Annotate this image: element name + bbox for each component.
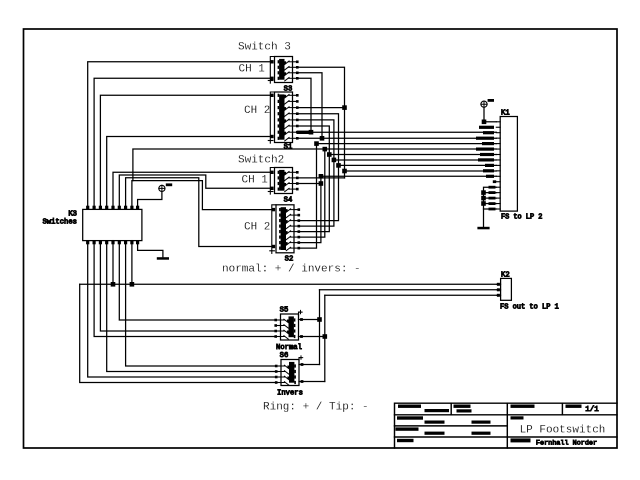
switch S3 (Switch 3 CH 1) bbox=[268, 57, 298, 94]
svg-text:K1: K1 bbox=[501, 110, 510, 118]
svg-text:Switch 3: Switch 3 bbox=[238, 42, 291, 54]
wire K3 pin11 to S5 pole 4 bbox=[94, 241, 276, 337]
wire net S4.3/S2.7 column x320.9 to K1 pin11 bbox=[299, 176, 321, 242]
wire K3 pin15 to S5 pole 1 bbox=[119, 241, 275, 320]
svg-text:Switch2: Switch2 bbox=[238, 155, 284, 167]
svg-text:normal: + / invers: -: normal: + / invers: - bbox=[222, 264, 361, 276]
wire K3 common loop to K1 pin6 bbox=[133, 149, 496, 181]
switch S6 Invers bbox=[275, 352, 303, 398]
switch S5 Normal bbox=[274, 307, 302, 353]
wire K3 pin5 to S4 CH1 pole 1 bbox=[113, 172, 272, 209]
connector K1 FS to LP 2 bbox=[496, 110, 542, 222]
switch S4 (Switch2 CH 1) bbox=[268, 168, 298, 205]
svg-text:Fernhall Norder: Fernhall Norder bbox=[536, 440, 597, 448]
wire K3 pin13 to S6 pole 2 bbox=[107, 241, 277, 372]
wire K3 pin16 to S6 pole 1 bbox=[126, 241, 277, 366]
wire K3 pin1 to S3 CH1 pole 1 bbox=[88, 62, 272, 210]
wire S2.6 up column x324.8 to K3 common line bbox=[299, 149, 325, 237]
svg-text:CH 2: CH 2 bbox=[244, 222, 270, 234]
svg-text:CH 1: CH 1 bbox=[239, 64, 266, 76]
wire output bus to K2 pin1 bbox=[80, 283, 497, 285]
wire net S1.5/S2.4 column x333.9 to K1 pin8 bbox=[297, 120, 334, 226]
wire S2.8 up column x316.5 to K1 pin5 bbox=[299, 144, 317, 249]
title block bbox=[395, 403, 618, 448]
svg-text:LP Footswitch: LP Footswitch bbox=[520, 425, 606, 437]
wire net S5 out2 / S6 out2 to K2 pin3 bbox=[299, 336, 325, 338]
ground symbol below K3 bbox=[157, 257, 169, 260]
wire K3 pin12 to S5 pole 3 bbox=[100, 241, 275, 331]
K1 net name bars bbox=[479, 126, 494, 129]
earth symbol near K3 bbox=[159, 183, 172, 191]
wire S3 throw 4 down column x311 joining S1.7 line to K1 pin3 bbox=[297, 78, 311, 132]
connector K2 FS out to LP 1 bbox=[497, 272, 559, 312]
svg-text:S5: S5 bbox=[280, 307, 289, 315]
svg-text:S1: S1 bbox=[284, 144, 293, 152]
svg-text:S4: S4 bbox=[284, 197, 293, 205]
svg-text:K2: K2 bbox=[501, 272, 510, 280]
earth symbol near K1 bbox=[481, 99, 494, 107]
wire net S1.4/S2.3 column x338.5 to K1 pin9 bbox=[297, 114, 338, 221]
svg-text:Ring: + / Tip: -: Ring: + / Tip: - bbox=[263, 402, 369, 414]
svg-text:CH 1: CH 1 bbox=[242, 175, 269, 187]
wire net S3.2/S1.3/S4.2 common, column x344.5, to K1 pin10 bbox=[297, 67, 344, 178]
wire K3 pin8 to S2 CH2 pole 1 bbox=[132, 181, 274, 210]
svg-text:CH 2: CH 2 bbox=[244, 105, 270, 117]
svg-text:S2: S2 bbox=[285, 256, 294, 264]
wire earth to K1 pin1 bbox=[483, 107, 485, 121]
wire S3 throw 3 down column x322 joining S1.8 line to K1 pin4 bbox=[297, 73, 322, 139]
svg-text:FS to LP 2: FS to LP 2 bbox=[501, 214, 542, 222]
svg-text:Invers: Invers bbox=[277, 390, 303, 398]
wire K3 pin18 to ground bbox=[138, 241, 163, 257]
title block redacted text bars bbox=[398, 405, 421, 408]
wire K3 pin14 to output bus bbox=[112, 241, 114, 285]
switch S1 (Switch 3 CH 2) bbox=[268, 92, 298, 152]
switch S2 (Switch2 CH 2) bbox=[270, 205, 300, 264]
wire K1 pins 14-18 to ground bbox=[484, 187, 497, 227]
svg-text:Normal: Normal bbox=[276, 344, 302, 352]
wire net S1.6/S2.5 column x329.3 to K1 pin7 bbox=[297, 126, 329, 232]
svg-text:S6: S6 bbox=[280, 352, 289, 360]
ground symbol below K1 bbox=[477, 227, 489, 230]
wire K3 pin10 to S6 pole 3 bbox=[88, 241, 277, 377]
svg-text:FS out to LP 1: FS out to LP 1 bbox=[500, 304, 559, 312]
wire K3 pin4 to S1 CH2 pole 2 bbox=[107, 137, 272, 210]
svg-text:Switches: Switches bbox=[42, 219, 77, 227]
wire K3 pin9 to earth symbol bbox=[138, 192, 162, 210]
wire K3 pin7 to S2 CH2 pole 2 bbox=[126, 178, 274, 247]
svg-text:K3: K3 bbox=[68, 211, 77, 219]
wire bus left leg to S6 pole 4 bbox=[80, 284, 277, 382]
wire K3 pin17 to output bus bbox=[131, 241, 133, 285]
wire K3 pin6 to S4 CH1 pole 2 bbox=[119, 175, 272, 209]
wire K3 pin2 to S3 CH1 pole 2 bbox=[94, 78, 272, 209]
svg-text:1/1: 1/1 bbox=[585, 406, 599, 414]
wire K3 pin3 to S1 CH2 pole 1 bbox=[100, 95, 272, 209]
wire net S5 out1 / S6 out1 to K2 pin2 bbox=[299, 319, 320, 321]
connector K3 Switches bbox=[42, 206, 141, 245]
